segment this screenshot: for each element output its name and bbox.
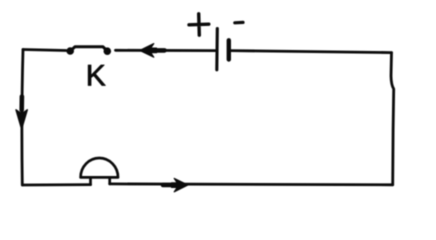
current arrow (right) on bottom wire [163, 183, 174, 188]
switch K: left contact dot [67, 48, 74, 55]
wire: top middle segment from switch to battery [116, 49, 216, 52]
bell HA: pedestal left leg [89, 178, 92, 185]
current arrow (left) on top wire [154, 48, 165, 53]
wire: bottom segment left of bell [23, 183, 91, 186]
wire: bottom segment right of bell [110, 182, 393, 186]
svg-text:K: K [86, 59, 106, 92]
wire: top-left segment from left corner to switch [23, 50, 66, 51]
bell HA: pedestal right leg [108, 178, 111, 184]
bell HA: dome [81, 158, 118, 177]
current arrow (down) on left wire [19, 97, 24, 111]
wire: right vertical side [391, 53, 394, 185]
battery: long plate (+) [215, 29, 219, 70]
battery: plus label [189, 14, 209, 35]
switch K: right contact dot [104, 48, 111, 55]
battery: short plate (-) [227, 40, 231, 59]
battery: minus label [235, 21, 243, 25]
switch K: blade (closed) [70, 47, 107, 51]
wire: top right segment from battery to right corner [231, 51, 392, 53]
wire: left vertical side [22, 50, 23, 186]
